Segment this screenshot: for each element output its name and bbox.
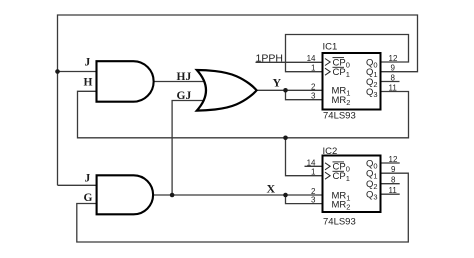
svg-text:14: 14 bbox=[307, 158, 316, 167]
wire: Y branch down to IC1 MR2 (pin3) bbox=[286, 90, 323, 99]
wire: IC1 Q3(pin11) feedback down, across, up to AND1 input H bbox=[78, 91, 409, 138]
IC2 clock chevron pin1 bbox=[325, 172, 330, 179]
node: junction on Q3 wire feeding IC2 CP1 bbox=[283, 136, 288, 141]
wire: IC2 Q0 (pin12) stub bbox=[381, 162, 400, 164]
svg-text:3: 3 bbox=[311, 196, 316, 205]
IC U1 box (74LS93) bbox=[323, 53, 381, 110]
svg-text:3: 3 bbox=[311, 92, 316, 101]
wire: X branch down to IC2 MR2 (pin3) bbox=[286, 195, 323, 204]
svg-text:H: H bbox=[84, 77, 93, 89]
node X: junction at GJ branch bbox=[170, 193, 175, 198]
svg-text:1PPH: 1PPH bbox=[256, 53, 283, 65]
svg-text:14: 14 bbox=[307, 54, 316, 63]
IC1 clock chevron pin14 bbox=[325, 59, 330, 66]
svg-text:GJ: GJ bbox=[177, 90, 192, 102]
node: junction on left rail at AND1 J bbox=[55, 69, 60, 74]
svg-text:X: X bbox=[267, 181, 276, 195]
node Y: junction on Y wire bbox=[283, 88, 288, 93]
wire: IC2 CP0 (pin14) stub bbox=[305, 165, 323, 167]
wire: AND2 output X to IC2 MR1 (pin2) bbox=[154, 194, 323, 196]
wire: AND1 output HJ to OR gate bbox=[154, 81, 205, 83]
wire: IC1 Q2 (pin8) stub bbox=[381, 81, 400, 83]
wire: left rail branch to AND1 input J bbox=[58, 71, 97, 73]
svg-text:IC2: IC2 bbox=[323, 146, 338, 157]
svg-text:74LS93: 74LS93 bbox=[323, 111, 356, 122]
svg-text:9: 9 bbox=[391, 64, 396, 73]
svg-text:Y: Y bbox=[273, 76, 282, 90]
wire: IC2 Q2 (pin8) stub bbox=[381, 183, 400, 185]
wire: GJ from X-node up to OR gate lower input bbox=[172, 101, 204, 196]
wire: outer feedback loop IC1 Q1(pin9) to left rail, top bbox=[58, 15, 418, 185]
svg-text:1: 1 bbox=[311, 168, 316, 177]
svg-text:11: 11 bbox=[389, 84, 398, 93]
svg-text:2: 2 bbox=[311, 82, 316, 91]
node: junction on X wire at IC2 MR branch bbox=[283, 193, 288, 198]
svg-text:12: 12 bbox=[389, 54, 398, 63]
wire: left rail to AND2 input J bbox=[58, 184, 97, 186]
svg-text:IC1: IC1 bbox=[323, 42, 338, 53]
IC U2 box (74LS93) bbox=[323, 156, 381, 213]
svg-text:J: J bbox=[85, 173, 91, 185]
AND gate A2 (inputs J,G) bbox=[97, 175, 154, 214]
AND gate A1 (inputs J,H) bbox=[97, 61, 154, 101]
wire: IC2 Q3 (pin11) stub bbox=[381, 193, 400, 195]
wire: IC2 Q1(pin9) feedback down, across bottom, up to AND2 input G bbox=[77, 173, 409, 242]
svg-text:J: J bbox=[85, 57, 91, 69]
svg-text:8: 8 bbox=[391, 74, 396, 83]
svg-text:11: 11 bbox=[389, 186, 398, 195]
svg-text:8: 8 bbox=[391, 176, 396, 185]
svg-text:74LS93: 74LS93 bbox=[323, 217, 356, 228]
svg-text:HJ: HJ bbox=[177, 71, 192, 83]
svg-text:1: 1 bbox=[311, 64, 316, 73]
OR gate O1 (inputs HJ,GJ; output Y) bbox=[197, 70, 257, 111]
IC2 clock chevron pin14 bbox=[325, 163, 330, 170]
wire: OR output Y to IC1 MR1 (pin2) bbox=[258, 89, 323, 91]
svg-text:G: G bbox=[84, 192, 93, 204]
svg-text:12: 12 bbox=[389, 155, 398, 164]
svg-text:9: 9 bbox=[391, 165, 396, 174]
wire: Q3 node down to IC2 CP1 (pin1) bbox=[286, 138, 323, 176]
wire: IC1 Q0(pin12) feedback loop to CP1(pin1) bbox=[286, 35, 409, 72]
IC1 clock chevron pin1 bbox=[325, 68, 330, 75]
wire: 1PPH input to IC1 CP0 (pin14) bbox=[256, 61, 323, 63]
